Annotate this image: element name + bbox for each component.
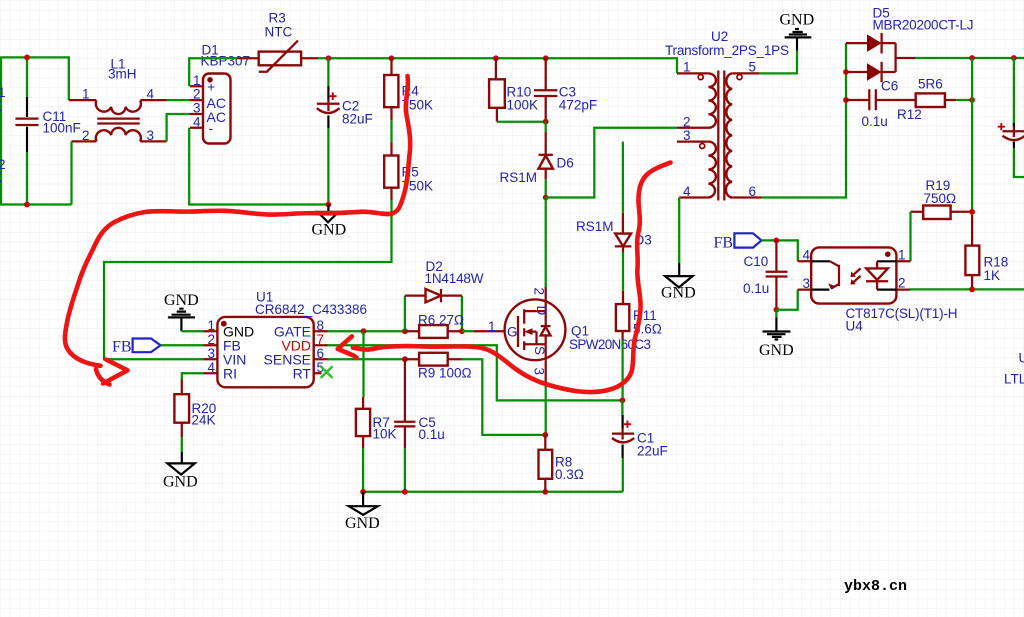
svg-text:C6: C6	[881, 79, 898, 94]
svg-text:1: 1	[488, 319, 496, 334]
wire R19 column vertical	[971, 58, 973, 215]
svg-text:NTC: NTC	[265, 25, 293, 40]
junction SENSE at C5	[402, 356, 408, 362]
svg-text:CR6842_C433386: CR6842_C433386	[255, 302, 367, 317]
resistor R4 750K	[384, 58, 433, 120]
svg-text:3: 3	[208, 346, 216, 361]
capacitor C10 0.1u	[743, 240, 788, 309]
wire U1 SENSE to R9	[328, 358, 405, 360]
svg-text:ybx8.cn: ybx8.cn	[844, 578, 907, 595]
wire transformer pin5 to GND	[760, 51, 797, 74]
svg-text:2: 2	[208, 332, 216, 347]
svg-text:4: 4	[193, 114, 201, 129]
svg-text:2: 2	[82, 128, 90, 143]
svg-text:U: U	[1019, 351, 1024, 366]
svg-text:GND: GND	[164, 292, 199, 309]
svg-text:100nF: 100nF	[43, 121, 81, 136]
svg-text:5R6: 5R6	[918, 77, 943, 92]
junction GND bus at R7	[360, 489, 366, 495]
wire R11 to VDD node	[621, 340, 623, 400]
svg-text:0.3Ω: 0.3Ω	[555, 467, 584, 482]
transistor Q1 SPW20N60C3 MOSFET	[474, 287, 651, 375]
svg-text:R3: R3	[269, 11, 286, 26]
svg-text:GND: GND	[345, 515, 380, 532]
wire C10 to ground	[775, 310, 777, 318]
svg-text:0.1u: 0.1u	[419, 427, 445, 442]
wire R5 bottom to U1 VIN	[104, 200, 392, 359]
wire bottom-left AC line to C11	[0, 203, 72, 205]
wire D1 pin1 up to top bus	[189, 58, 237, 86]
svg-text:10K: 10K	[373, 427, 397, 442]
capacitor C3 472pF	[534, 58, 597, 121]
junction top bus at R4	[389, 55, 395, 61]
junction VDD / C1 node	[620, 398, 626, 404]
svg-text:5: 5	[749, 60, 757, 75]
wire R20 to ground	[181, 437, 183, 452]
svg-text:K: K	[0, 99, 2, 114]
svg-text:1: 1	[82, 87, 90, 102]
resistor R7 10K	[356, 331, 397, 448]
svg-text:1: 1	[0, 85, 6, 100]
annotation red stroke right loop with arrow at VDD	[338, 163, 671, 392]
svg-text:RI: RI	[223, 366, 237, 382]
svg-text:GND: GND	[163, 474, 198, 491]
wire top-left AC line to C11 and L1 pin1	[0, 57, 69, 100]
svg-text:6: 6	[317, 346, 325, 361]
svg-text:S: S	[532, 346, 547, 355]
wire left-edge vertical AC rail	[0, 57, 2, 204]
wire R7 to GND bus	[362, 448, 364, 492]
capacitor C1 22uF polarized	[612, 400, 668, 491]
transformer U2 Transform_2PS_1PS	[665, 29, 789, 201]
svg-text:GND: GND	[780, 12, 815, 29]
junction R19 right at R18	[969, 209, 975, 215]
wire D3 to R11	[622, 252, 624, 291]
svg-text:2: 2	[898, 276, 906, 291]
svg-text:+: +	[207, 79, 215, 95]
svg-text:1K: 1K	[984, 268, 1001, 283]
wire R6 to Q1 gate	[462, 330, 474, 332]
svg-text:G: G	[507, 325, 518, 340]
capacitor Cout at right edge	[998, 58, 1024, 177]
ground symbol under transformer pin4	[661, 263, 696, 302]
svg-text:1N4148W: 1N4148W	[425, 271, 484, 286]
svg-text:C10: C10	[744, 254, 769, 269]
svg-text:4: 4	[683, 184, 691, 199]
junction top bus at C2	[326, 55, 332, 61]
resistor R20 24K	[174, 380, 216, 438]
wire primary GND bus	[363, 491, 623, 493]
svg-text:LTL: LTL	[1004, 372, 1024, 387]
bridge rectifier D1 KBP307	[190, 43, 250, 144]
svg-text:3mH: 3mH	[108, 67, 137, 82]
net flag FB right	[714, 233, 762, 251]
svg-text:U2: U2	[711, 29, 728, 44]
svg-text:3: 3	[683, 128, 691, 143]
junction C2 bottom on GND rail	[326, 202, 332, 208]
svg-text:8: 8	[317, 318, 325, 333]
inductor L1 common-mode choke	[69, 57, 167, 144]
svg-text:KBP307: KBP307	[201, 54, 251, 69]
svg-text:6: 6	[749, 184, 757, 199]
svg-text:D6: D6	[557, 156, 574, 171]
svg-text:22uF: 22uF	[637, 444, 668, 459]
svg-text:82uF: 82uF	[342, 112, 373, 127]
resistor R9 100 ohm	[405, 353, 472, 381]
annotation red stroke left loop with arrow	[65, 76, 410, 385]
diode D2 1N4148W	[405, 259, 484, 331]
svg-text:2: 2	[532, 288, 547, 296]
svg-text:750Ω: 750Ω	[924, 191, 957, 206]
optocoupler U4 CT817C	[798, 247, 958, 333]
wire D6 anode to drain node	[545, 169, 547, 179]
wire FB flag to U1 pin2	[161, 344, 204, 346]
capacitor C2 82uF polarized	[317, 58, 373, 204]
ground earth symbol under C10	[759, 318, 794, 360]
wire C3 bottom to D6	[545, 122, 547, 132]
capacitor C6 0.1u	[846, 79, 916, 130]
junction R18 bottom	[969, 287, 975, 293]
ground earth symbol top right	[780, 12, 815, 51]
junction C10 top	[774, 238, 780, 244]
svg-text:3: 3	[147, 128, 155, 143]
wire C10 bottom to opto pin3	[776, 290, 797, 310]
wire L1 pin3 to D1 pin3	[167, 114, 190, 141]
wire R4 to R5	[390, 120, 392, 142]
svg-text:1: 1	[683, 60, 691, 75]
resistor R8 0.3 ohm	[539, 435, 584, 492]
wire R19 to opto pin1	[909, 212, 911, 261]
wire R12 to R19 column	[956, 99, 972, 101]
junction C11 top	[24, 55, 30, 61]
wire C5 to GND bus	[404, 448, 406, 492]
svg-text:0.1u: 0.1u	[743, 281, 769, 296]
ground symbol bottom middle	[345, 492, 380, 532]
svg-text:Transform_2PS_1PS: Transform_2PS_1PS	[665, 43, 789, 58]
junction output bus at R19 column	[969, 55, 975, 61]
wire L1 pin4 to D1 pin2	[167, 99, 190, 101]
diode D3 RS1M	[576, 142, 652, 252]
wire D5 output to top right bus	[916, 57, 1024, 59]
junction R12 output	[969, 97, 975, 103]
net flag FB left	[112, 339, 161, 356]
wire U1 VDD to C1 node	[328, 345, 623, 400]
ground symbol under R20	[163, 452, 198, 491]
wire drain node to transformer pin2	[546, 128, 677, 198]
resistor R18 1K	[965, 215, 1008, 289]
svg-text:RS1M: RS1M	[576, 219, 614, 234]
svg-text:3: 3	[803, 276, 811, 291]
resistor R10 100K	[489, 58, 538, 121]
wire D1 pin4 down to GND rail	[189, 128, 328, 205]
junction GATE at R7 branch	[361, 328, 367, 334]
resistor R12 5R6	[897, 77, 956, 123]
svg-text:RS1M: RS1M	[500, 170, 538, 185]
svg-text:3: 3	[193, 101, 201, 116]
junction C6 branch	[843, 97, 849, 103]
wire transformer pin6 to D5 anodes	[762, 43, 846, 197]
wire L1 pin2 down to bottom rail	[70, 141, 72, 204]
svg-text:100K: 100K	[507, 98, 539, 113]
junction C3 bottom	[543, 119, 549, 125]
wire U1 pin4 RI to R20	[182, 373, 204, 379]
svg-text:K: K	[0, 170, 2, 185]
IC U1 CR6842_C433386	[204, 290, 368, 388]
svg-text:4: 4	[803, 248, 811, 263]
svg-text:FB: FB	[714, 235, 734, 252]
junction source node	[542, 432, 548, 438]
junction output bus at Cout	[1011, 55, 1017, 61]
wire R9 to Q1 source node	[462, 359, 545, 435]
wire top bus from R3 to transformer pin1	[318, 58, 677, 73]
ground earth symbol above U1	[164, 292, 199, 331]
wire Q1 source down to R8 node	[545, 361, 547, 382]
wire GND symbol to U1 pin1	[181, 330, 203, 332]
junction GATE at D2 left	[402, 328, 408, 334]
junction GATE at R6 right	[459, 328, 465, 334]
resistor R5 750K	[384, 143, 433, 201]
wire U1 GATE to R6	[328, 330, 405, 332]
svg-text:FB: FB	[112, 339, 132, 356]
thermistor R3 NTC	[237, 11, 318, 72]
svg-text:GND: GND	[661, 285, 696, 302]
junction drain node	[543, 195, 549, 201]
resistor R11 5.6 ohm	[616, 291, 662, 340]
junction D5 lower anode	[843, 69, 849, 75]
no-connect X on U1 pin5 RT	[321, 366, 333, 378]
resistor R6 27 ohm	[405, 313, 464, 338]
svg-text:7: 7	[317, 332, 325, 347]
svg-text:U4: U4	[846, 319, 864, 334]
diode D6 RS1M	[500, 132, 574, 185]
wire secondary GND bus	[910, 288, 1024, 290]
svg-text:GND: GND	[759, 342, 794, 359]
svg-text:3: 3	[532, 368, 547, 376]
svg-text:1: 1	[208, 318, 216, 333]
resistor R19 750 ohm	[911, 178, 973, 219]
junction top bus at R10	[493, 55, 499, 61]
junction GND bus at C5	[402, 489, 408, 495]
wire R10 bottom to C3 bottom	[497, 121, 546, 123]
ground symbol under C2	[312, 205, 347, 239]
svg-text:R9 100Ω: R9 100Ω	[418, 366, 472, 381]
junction GND bus at R8	[542, 489, 548, 495]
wire drain node down to Q1 drain	[545, 198, 547, 288]
svg-text:4: 4	[208, 360, 216, 375]
wire transformer pin4 to GND	[678, 198, 680, 263]
svg-text:4: 4	[147, 87, 155, 102]
svg-text:R6 27Ω: R6 27Ω	[418, 313, 464, 328]
wire FB flag to opto pin4	[762, 240, 798, 261]
svg-text:-: -	[209, 120, 214, 136]
svg-text:472pF: 472pF	[559, 98, 597, 113]
svg-text:24K: 24K	[192, 413, 216, 428]
capacitor C11	[15, 57, 80, 204]
svg-text:R4: R4	[402, 84, 420, 99]
svg-text:1: 1	[898, 248, 906, 263]
svg-text:2: 2	[193, 87, 201, 102]
svg-text:D: D	[534, 306, 549, 316]
capacitor C5 0.1u	[394, 359, 445, 448]
svg-text:RT: RT	[293, 366, 312, 382]
junction C11 bottom	[24, 202, 30, 208]
svg-text:MBR20200CT-LJ: MBR20200CT-LJ	[873, 18, 974, 33]
svg-text:R12: R12	[897, 107, 922, 122]
svg-text:GND: GND	[312, 222, 347, 239]
dual diode D5 MBR20200CT-LJ	[846, 6, 974, 83]
junction C10 bottom	[774, 307, 780, 313]
svg-text:SPW20N60C3: SPW20N60C3	[569, 337, 651, 352]
svg-text:0.1u: 0.1u	[862, 114, 888, 129]
junction top bus at C3	[543, 55, 549, 61]
